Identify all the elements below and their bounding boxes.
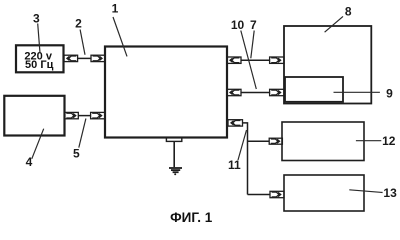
block A13: [284, 175, 364, 211]
connector X12 plug at block 12: [269, 138, 282, 144]
connector X5 plug at block 1: [91, 112, 105, 118]
block A8 right unit: [284, 26, 371, 104]
svg-text:10: 10: [231, 18, 245, 32]
svg-text:ФИГ. 1: ФИГ. 1: [170, 210, 213, 225]
connector X10 plug at block 9: [270, 89, 284, 95]
wire net 10: [241, 92, 270, 94]
leader line to block 9: [334, 91, 380, 93]
ground dot: [174, 173, 176, 175]
ground symbol: [169, 168, 182, 172]
leader line to wire 7: [251, 31, 254, 59]
leader line to block 3: [38, 24, 40, 54]
leader line to connector 2: [80, 30, 85, 55]
leader line to block 8: [325, 16, 343, 32]
connector X7 plug at block 8: [270, 57, 284, 63]
block G1 source 220V 50Hz: [16, 45, 64, 72]
leader line to wire 10: [241, 31, 256, 90]
block U1 main unit: [105, 47, 227, 138]
block A4 lower-left unit: [4, 96, 64, 136]
wire net 11 trunk: [243, 123, 248, 195]
svg-text:7: 7: [250, 18, 257, 32]
svg-text:1: 1: [112, 1, 119, 15]
leader line to wire 11: [238, 130, 247, 160]
wire net 7: [241, 59, 270, 61]
wire branch to block 13: [248, 194, 271, 196]
ground wire: [173, 141, 175, 167]
leader line to block 12: [356, 140, 381, 142]
wire net 5: [78, 115, 90, 117]
leader line to connector 5: [79, 119, 86, 148]
svg-text:12: 12: [382, 134, 396, 148]
svg-text:3: 3: [33, 11, 40, 25]
svg-text:13: 13: [383, 186, 397, 200]
connector X5 plug at block 4: [65, 112, 79, 118]
block A9 nested unit: [285, 77, 343, 102]
leader line to block 13: [349, 190, 382, 193]
connector X10 plug at block 1: [227, 89, 241, 95]
block A12: [282, 122, 364, 161]
svg-text:2: 2: [75, 17, 82, 31]
connector X11 plug at block 1: [228, 120, 243, 126]
svg-text:8: 8: [345, 4, 352, 18]
ground stub terminal: [166, 138, 181, 142]
connector X13 plug at block 13: [270, 191, 284, 197]
svg-text:4: 4: [26, 155, 33, 169]
wire branch to block 12: [248, 140, 270, 142]
leader line to block 4: [32, 129, 44, 159]
svg-text:11: 11: [228, 158, 241, 172]
leader line to block 1: [113, 17, 127, 56]
svg-text:5: 5: [73, 146, 80, 160]
wire net 2: [78, 57, 91, 59]
svg-text:9: 9: [386, 86, 393, 100]
connector X7 plug at block 1: [227, 57, 241, 63]
connector X2 plug at block 3: [64, 55, 78, 61]
connector X2 plug at block 1: [91, 55, 105, 61]
svg-text:50 Гц: 50 Гц: [25, 59, 54, 71]
